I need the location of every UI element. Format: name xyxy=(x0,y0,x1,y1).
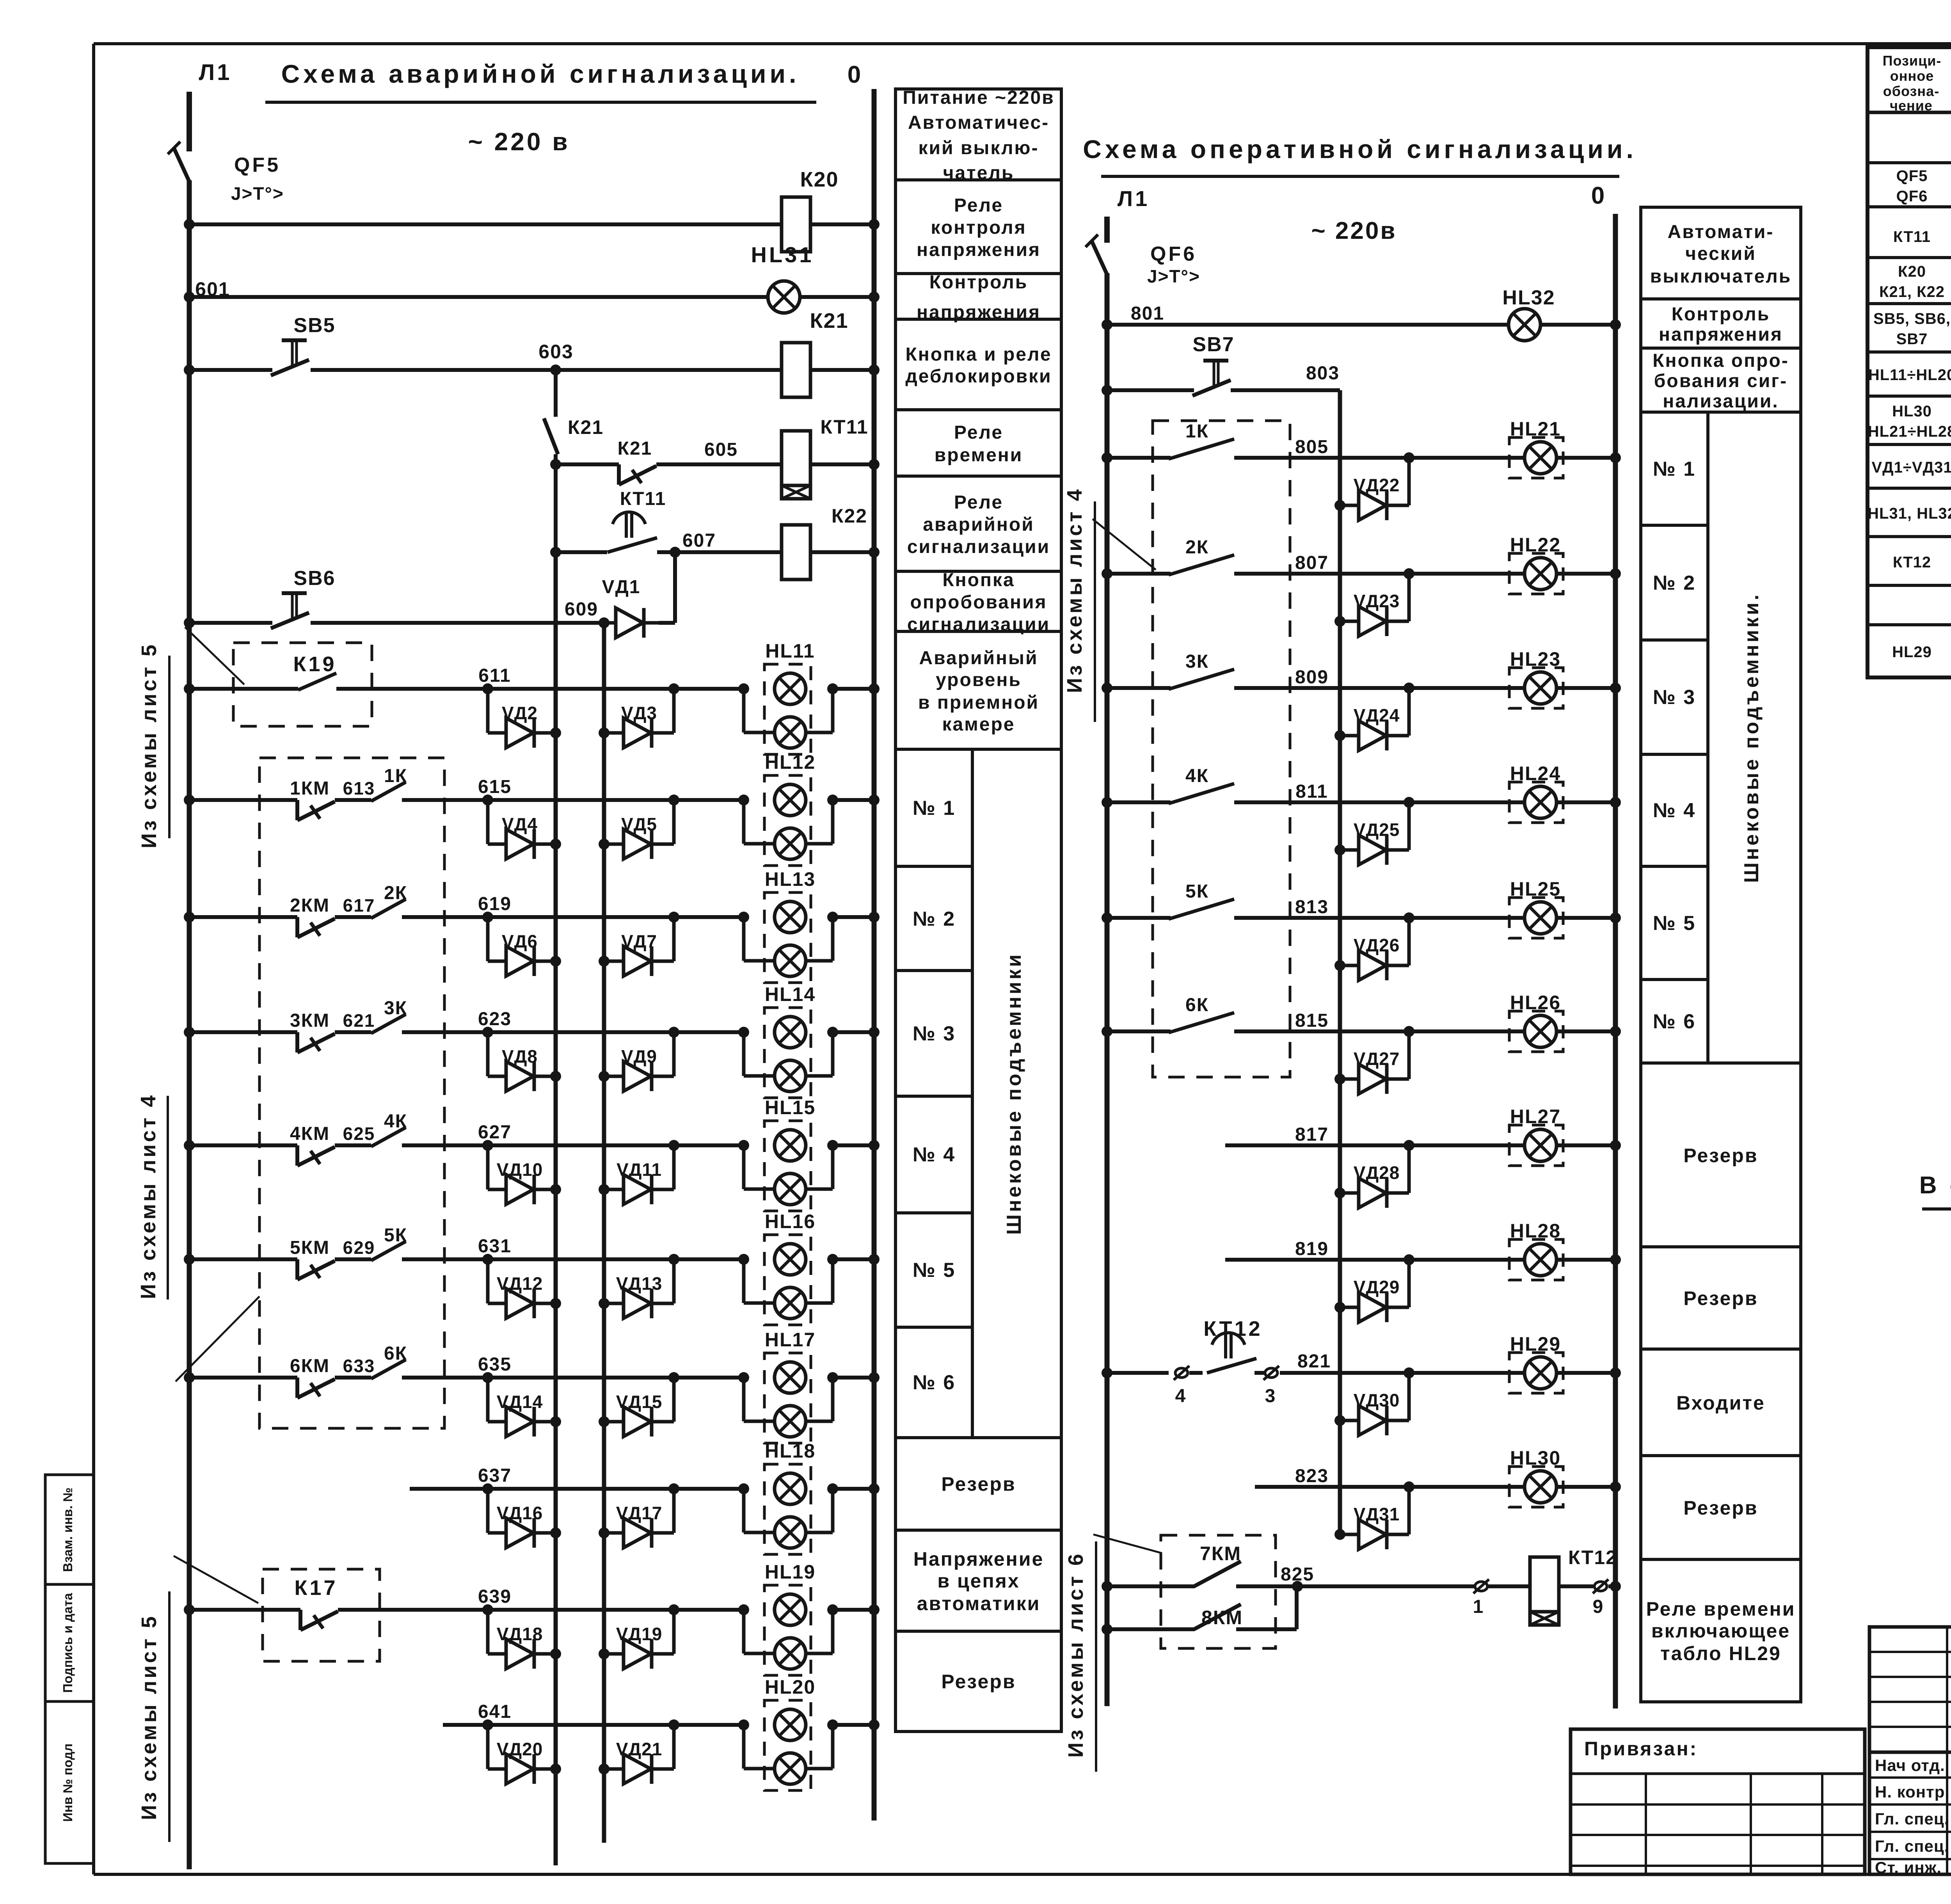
svg-text:КТ12: КТ12 xyxy=(1203,1317,1262,1340)
svg-text:5КМ: 5КМ xyxy=(290,1237,330,1258)
svg-text:VД17: VД17 xyxy=(616,1503,663,1523)
svg-text:нализации.: нализации. xyxy=(1663,391,1779,412)
svg-text:1К: 1К xyxy=(384,766,407,786)
svg-text:803: 803 xyxy=(1306,363,1340,384)
svg-text:641: 641 xyxy=(478,1701,512,1722)
svg-text:VД8: VД8 xyxy=(502,1046,538,1067)
svg-text:№ 6: № 6 xyxy=(913,1371,956,1394)
svg-text:HL32: HL32 xyxy=(1502,286,1555,309)
svg-text:VД13: VД13 xyxy=(616,1273,663,1294)
svg-text:VД31: VД31 xyxy=(1354,1504,1400,1524)
svg-text:HL29: HL29 xyxy=(1892,644,1932,661)
svg-text:QF5: QF5 xyxy=(234,154,281,176)
svg-text:К20: К20 xyxy=(800,168,839,191)
svg-text:VД23: VД23 xyxy=(1354,591,1400,611)
svg-text:637: 637 xyxy=(478,1465,512,1486)
svg-text:3: 3 xyxy=(1265,1386,1278,1406)
svg-text:819: 819 xyxy=(1295,1239,1329,1259)
svg-text:601: 601 xyxy=(195,278,230,300)
svg-text:включающее: включающее xyxy=(1651,1620,1790,1642)
svg-text:811: 811 xyxy=(1295,781,1328,802)
svg-text:выключатель: выключатель xyxy=(1650,266,1792,287)
svg-text:К21: К21 xyxy=(568,416,604,438)
svg-text:Л1: Л1 xyxy=(1118,186,1150,211)
svg-text:5К: 5К xyxy=(1185,881,1209,902)
svg-text:Инв № подл: Инв № подл xyxy=(60,1744,75,1822)
svg-text:HL16: HL16 xyxy=(765,1211,816,1232)
svg-text:ческий: ческий xyxy=(1685,244,1756,264)
svg-text:VД22: VД22 xyxy=(1354,475,1400,495)
svg-text:Нач отд.: Нач отд. xyxy=(1875,1756,1945,1774)
svg-text:HL31: HL31 xyxy=(751,242,814,267)
svg-text:VД29: VД29 xyxy=(1354,1277,1400,1297)
svg-text:621: 621 xyxy=(343,1010,375,1031)
svg-text:Н. контр.: Н. контр. xyxy=(1875,1783,1950,1801)
svg-text:VД10: VД10 xyxy=(497,1159,543,1180)
svg-text:HL13: HL13 xyxy=(765,868,816,890)
svg-text:629: 629 xyxy=(343,1237,375,1258)
svg-text:К21, К22: К21, К22 xyxy=(1879,283,1945,300)
svg-text:623: 623 xyxy=(478,1009,512,1029)
svg-text:813: 813 xyxy=(1295,897,1329,917)
svg-text:№ 1: № 1 xyxy=(913,797,956,820)
svg-text:801: 801 xyxy=(1131,303,1164,324)
svg-text:VД9: VД9 xyxy=(621,1046,657,1067)
svg-text:HL11: HL11 xyxy=(765,640,815,662)
svg-text:1КМ: 1КМ xyxy=(290,778,330,799)
svg-text:№ 4: № 4 xyxy=(913,1143,956,1166)
svg-text:КТ11: КТ11 xyxy=(820,416,868,438)
svg-text:HL30: HL30 xyxy=(1510,1447,1561,1469)
svg-text:1К: 1К xyxy=(1185,421,1209,442)
svg-text:К21: К21 xyxy=(618,438,652,459)
svg-text:К19: К19 xyxy=(293,652,336,676)
svg-text:825: 825 xyxy=(1281,1564,1314,1585)
svg-text:Резерв: Резерв xyxy=(941,1671,1016,1692)
svg-text:2КМ: 2КМ xyxy=(290,895,330,916)
svg-text:Реле времени: Реле времени xyxy=(1646,1598,1796,1620)
svg-text:Реле: Реле xyxy=(954,422,1003,443)
svg-text:4: 4 xyxy=(1175,1386,1188,1406)
svg-text:~ 220 в: ~ 220 в xyxy=(468,128,570,156)
svg-text:VД1÷VД31: VД1÷VД31 xyxy=(1871,459,1951,476)
svg-text:809: 809 xyxy=(1295,667,1329,688)
svg-text:611: 611 xyxy=(478,665,511,686)
svg-text:HL30: HL30 xyxy=(1892,403,1932,420)
svg-text:627: 627 xyxy=(478,1122,512,1143)
svg-text:Контроль: Контроль xyxy=(1672,304,1770,325)
svg-text:SB5, SB6,: SB5, SB6, xyxy=(1873,310,1951,327)
svg-text:Взам. инв. №: Взам. инв. № xyxy=(60,1488,75,1572)
svg-text:КТ11: КТ11 xyxy=(620,489,666,509)
svg-text:в приемной: в приемной xyxy=(918,692,1039,713)
svg-text:817: 817 xyxy=(1295,1124,1329,1145)
svg-text:Контроль: Контроль xyxy=(929,272,1028,293)
svg-text:К22: К22 xyxy=(832,505,867,527)
svg-text:Из схемы лист 6: Из схемы лист 6 xyxy=(1064,1552,1087,1758)
svg-text:VД7: VД7 xyxy=(621,931,657,951)
svg-text:контроля: контроля xyxy=(931,217,1026,238)
svg-text:Входите: Входите xyxy=(1676,1392,1765,1414)
svg-text:аварийной: аварийной xyxy=(923,514,1034,535)
svg-text:807: 807 xyxy=(1295,553,1329,573)
svg-text:чение: чение xyxy=(1890,98,1933,114)
svg-text:639: 639 xyxy=(478,1586,512,1607)
svg-text:Резерв: Резерв xyxy=(1683,1497,1758,1519)
svg-text:HL24: HL24 xyxy=(1510,763,1561,784)
svg-text:3КМ: 3КМ xyxy=(290,1010,330,1031)
svg-text:бования сиг-: бования сиг- xyxy=(1654,371,1788,391)
svg-text:Питание ~220в: Питание ~220в xyxy=(903,87,1054,108)
svg-text:VД12: VД12 xyxy=(497,1273,543,1294)
svg-text:Резерв: Резерв xyxy=(941,1473,1016,1495)
svg-text:HL19: HL19 xyxy=(765,1561,816,1583)
svg-text:Схема аварийной сигнализации: Схема аварийной сигнализации. xyxy=(281,59,800,88)
svg-text:609: 609 xyxy=(565,599,598,620)
svg-text:HL21÷HL28: HL21÷HL28 xyxy=(1868,423,1951,440)
svg-text:№ 3: № 3 xyxy=(1653,686,1696,709)
svg-text:времени: времени xyxy=(935,445,1023,466)
svg-text:6К: 6К xyxy=(384,1343,407,1364)
svg-text:HL14: HL14 xyxy=(765,983,816,1005)
svg-text:Реле: Реле xyxy=(954,195,1003,216)
svg-text:633: 633 xyxy=(343,1356,375,1376)
svg-text:№ 6: № 6 xyxy=(1653,1010,1696,1033)
svg-text:8КМ: 8КМ xyxy=(1201,1607,1243,1628)
svg-text:Шнековые подъемники: Шнековые подъемники xyxy=(1003,952,1025,1235)
svg-text:Напряжение: Напряжение xyxy=(913,1548,1044,1570)
svg-text:821: 821 xyxy=(1297,1351,1331,1372)
svg-text:635: 635 xyxy=(478,1354,512,1375)
svg-text:VД5: VД5 xyxy=(621,814,657,834)
svg-text:SB7: SB7 xyxy=(1896,331,1928,348)
svg-text:HL22: HL22 xyxy=(1510,534,1561,556)
svg-text:VД21: VД21 xyxy=(616,1739,663,1759)
svg-text:КТ11: КТ11 xyxy=(1893,228,1931,245)
svg-text:HL17: HL17 xyxy=(765,1329,816,1351)
svg-text:VД28: VД28 xyxy=(1354,1163,1400,1183)
svg-text:табло HL29: табло HL29 xyxy=(1660,1643,1781,1664)
svg-text:4К: 4К xyxy=(1185,766,1209,786)
svg-text:3К: 3К xyxy=(1185,651,1209,672)
svg-text:HL26: HL26 xyxy=(1510,992,1561,1013)
svg-text:SB7: SB7 xyxy=(1192,333,1234,356)
svg-text:К17: К17 xyxy=(294,1576,338,1600)
svg-text:опробования: опробования xyxy=(910,592,1047,613)
svg-text:камере: камере xyxy=(942,714,1015,735)
svg-text:617: 617 xyxy=(343,895,375,916)
svg-text:QF5: QF5 xyxy=(1896,167,1928,185)
svg-text:VД4: VД4 xyxy=(502,814,538,834)
svg-text:Из схемы лист 4: Из схемы лист 4 xyxy=(137,1093,160,1299)
svg-text:К21: К21 xyxy=(810,309,848,332)
svg-text:VД25: VД25 xyxy=(1354,820,1400,840)
svg-text:VД6: VД6 xyxy=(502,931,538,951)
svg-text:HL28: HL28 xyxy=(1510,1220,1561,1242)
svg-text:VД16: VД16 xyxy=(497,1503,543,1523)
svg-text:автоматики: автоматики xyxy=(917,1593,1041,1614)
svg-text:Реле: Реле xyxy=(954,492,1003,513)
svg-text:605: 605 xyxy=(704,439,738,460)
svg-text:Из схемы лист 5: Из схемы лист 5 xyxy=(137,1614,161,1820)
svg-text:805: 805 xyxy=(1295,437,1329,457)
svg-text:напряжения: напряжения xyxy=(917,240,1041,260)
svg-text:1: 1 xyxy=(1473,1596,1486,1617)
svg-text:Резерв: Резерв xyxy=(1683,1145,1758,1166)
svg-text:Кнопка и реле: Кнопка и реле xyxy=(905,344,1052,365)
svg-text:~ 220в: ~ 220в xyxy=(1311,217,1397,244)
svg-text:HL12: HL12 xyxy=(765,751,816,773)
svg-text:№ 1: № 1 xyxy=(1653,458,1696,480)
svg-text:3К: 3К xyxy=(384,998,407,1019)
svg-text:0: 0 xyxy=(1591,182,1607,209)
svg-text:в цепях: в цепях xyxy=(937,1570,1020,1592)
svg-text:HL29: HL29 xyxy=(1510,1333,1561,1355)
svg-text:Кнопка: Кнопка xyxy=(942,570,1015,590)
svg-text:кий выклю-: кий выклю- xyxy=(919,138,1039,158)
svg-text:КТ12: КТ12 xyxy=(1893,554,1931,571)
svg-text:Позици-: Позици- xyxy=(1883,53,1942,69)
svg-text:VД20: VД20 xyxy=(497,1739,543,1759)
svg-text:№ 2: № 2 xyxy=(1653,572,1696,594)
svg-text:Резерв: Резерв xyxy=(1683,1287,1758,1309)
svg-text:625: 625 xyxy=(343,1124,375,1144)
svg-text:HL25: HL25 xyxy=(1510,878,1561,900)
svg-text:5К: 5К xyxy=(384,1225,407,1246)
svg-text:сигнализации: сигнализации xyxy=(907,537,1050,557)
svg-text:815: 815 xyxy=(1295,1010,1329,1031)
svg-text:Автоматичес-: Автоматичес- xyxy=(908,112,1049,133)
svg-text:Из схемы лист 4: Из схемы лист 4 xyxy=(1063,487,1086,693)
svg-text:0: 0 xyxy=(848,61,863,88)
svg-text:823: 823 xyxy=(1295,1466,1329,1486)
svg-text:J>T°>: J>T°> xyxy=(231,183,284,204)
svg-text:603: 603 xyxy=(538,341,573,363)
svg-text:HL21: HL21 xyxy=(1510,418,1561,440)
svg-text:2К: 2К xyxy=(1185,537,1209,558)
svg-text:4КМ: 4КМ xyxy=(290,1124,330,1144)
svg-text:VД18: VД18 xyxy=(497,1624,543,1644)
svg-text:онное: онное xyxy=(1890,68,1934,84)
svg-text:№ 5: № 5 xyxy=(913,1259,956,1282)
svg-text:VД3: VД3 xyxy=(621,703,657,723)
svg-text:HL31, HL32: HL31, HL32 xyxy=(1867,505,1951,522)
svg-text:HL23: HL23 xyxy=(1510,648,1561,670)
svg-text:Схема оперативной сигнализац: Схема оперативной сигнализации. xyxy=(1083,135,1637,164)
svg-text:VД24: VД24 xyxy=(1354,705,1400,725)
svg-text:деблокировки: деблокировки xyxy=(905,366,1052,387)
svg-text:HL15: HL15 xyxy=(765,1097,816,1118)
svg-text:HL18: HL18 xyxy=(765,1440,816,1462)
svg-text:Шнековые подъемники.: Шнековые подъемники. xyxy=(1740,592,1763,883)
svg-text:SB6: SB6 xyxy=(293,567,335,590)
svg-text:SB5: SB5 xyxy=(293,314,335,337)
svg-text:607: 607 xyxy=(682,530,716,551)
svg-text:HL27: HL27 xyxy=(1510,1106,1561,1127)
svg-text:HL20: HL20 xyxy=(765,1676,816,1698)
svg-text:VД19: VД19 xyxy=(616,1624,663,1644)
svg-text:4К: 4К xyxy=(384,1111,407,1132)
svg-text:Привязан:: Привязан: xyxy=(1584,1738,1698,1760)
svg-text:VД27: VД27 xyxy=(1354,1049,1400,1069)
svg-text:QF6: QF6 xyxy=(1150,243,1197,265)
svg-text:613: 613 xyxy=(343,778,375,798)
svg-text:HL11÷HL20: HL11÷HL20 xyxy=(1868,366,1951,384)
svg-text:619: 619 xyxy=(478,894,512,914)
svg-text:Автомати-: Автомати- xyxy=(1668,222,1774,242)
svg-text:Л1: Л1 xyxy=(199,60,232,85)
svg-text:631: 631 xyxy=(478,1236,512,1257)
svg-text:Гл. спец.: Гл. спец. xyxy=(1875,1837,1949,1855)
svg-text:В схему диспетчерской сигна: В схему диспетчерской сигнализации. xyxy=(1919,1172,1951,1199)
svg-text:2К: 2К xyxy=(384,883,407,903)
svg-text:К20: К20 xyxy=(1898,263,1926,280)
svg-text:VД30: VД30 xyxy=(1354,1390,1400,1410)
svg-text:6КМ: 6КМ xyxy=(290,1356,330,1376)
svg-text:VД1: VД1 xyxy=(602,577,641,597)
svg-text:№ 3: № 3 xyxy=(913,1022,956,1045)
svg-text:J>T°>: J>T°> xyxy=(1147,266,1200,286)
svg-text:№ 4: № 4 xyxy=(1653,799,1696,822)
svg-text:Из схемы лист 5: Из схемы лист 5 xyxy=(137,642,161,848)
svg-text:VД11: VД11 xyxy=(617,1159,662,1180)
svg-text:Кнопка опро-: Кнопка опро- xyxy=(1652,350,1789,371)
svg-text:Подпись и дата: Подпись и дата xyxy=(60,1593,75,1693)
svg-text:№ 2: № 2 xyxy=(913,908,956,930)
svg-text:КТ12: КТ12 xyxy=(1568,1547,1617,1568)
svg-text:9: 9 xyxy=(1593,1596,1606,1617)
svg-text:уровень: уровень xyxy=(936,670,1022,690)
svg-text:напряжения: напряжения xyxy=(1659,324,1783,345)
svg-text:7КМ: 7КМ xyxy=(1200,1543,1241,1564)
svg-text:615: 615 xyxy=(478,777,512,797)
svg-text:VД26: VД26 xyxy=(1354,935,1400,955)
svg-text:6К: 6К xyxy=(1185,995,1209,1015)
svg-text:VД2: VД2 xyxy=(502,703,538,723)
svg-text:Аварийный: Аварийный xyxy=(919,648,1038,668)
svg-text:Гл. спец.: Гл. спец. xyxy=(1875,1810,1949,1828)
svg-text:№ 5: № 5 xyxy=(1653,912,1696,935)
svg-text:QF6: QF6 xyxy=(1896,188,1928,205)
svg-text:Ст. инж.: Ст. инж. xyxy=(1875,1858,1942,1877)
svg-text:VД14: VД14 xyxy=(497,1392,543,1412)
svg-text:обозна-: обозна- xyxy=(1883,83,1939,99)
svg-text:VД15: VД15 xyxy=(616,1392,663,1412)
